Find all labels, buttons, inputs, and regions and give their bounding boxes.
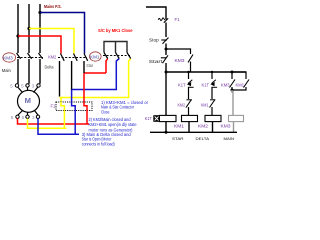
node start-top — [165, 48, 168, 51]
node L2 tap — [27, 27, 30, 30]
svg-text:KM1: KM1 — [90, 55, 100, 60]
terminal W2 — [36, 115, 39, 118]
svg-text:MAIN: MAIN — [224, 136, 235, 141]
coil KM3 — [229, 115, 244, 121]
star point bus — [104, 42, 127, 53]
branch K1T coil — [165, 72, 167, 115]
push button Start — [161, 57, 167, 59]
KM3 main contact pole3 — [39, 53, 43, 59]
svg-text:F1: F1 — [51, 104, 57, 109]
svg-text:STAR: STAR — [172, 136, 184, 141]
svg-text:connects in full load): connects in full load) — [82, 142, 116, 147]
wire motor to U2 — [18, 111, 23, 116]
svg-text:K1T: K1T — [202, 82, 210, 87]
coil KM2 — [205, 115, 221, 121]
control rail bottom — [150, 131, 237, 133]
supply line L3 — [39, 4, 41, 53]
overload contact F1 — [164, 18, 168, 23]
wire blue W2 bottom bus — [38, 119, 79, 135]
KM1 star contact pole2 — [116, 53, 120, 59]
KM1 star contact pole3 — [127, 53, 131, 59]
supply line L2 — [28, 4, 30, 53]
svg-text:Mains P.S.: Mains P.S. — [44, 4, 62, 10]
svg-text:KM1: KM1 — [201, 102, 209, 107]
wire red star pole1 jog — [106, 59, 108, 74]
push button Stop — [161, 39, 167, 41]
wire yellow V2 bottom bus — [28, 119, 67, 129]
contactor KM1 (Star) ellipse — [90, 52, 102, 61]
wire yellow feed heater1 — [60, 98, 62, 103]
svg-text:KM3: KM3 — [221, 82, 230, 87]
KM2 delta contact pole1 — [61, 54, 65, 61]
svg-text:Stop: Stop — [149, 37, 159, 42]
wire F1 to Stop — [165, 23, 167, 38]
svg-text:KM2: KM2 — [198, 124, 209, 129]
svg-text:M: M — [25, 96, 31, 105]
terminal V1 — [26, 84, 29, 87]
svg-text:KM1: KM1 — [174, 124, 185, 129]
svg-text:K1T: K1T — [178, 82, 186, 87]
svg-text:Start: Start — [149, 59, 164, 64]
wire yellow star pole3 jog — [60, 59, 131, 98]
wire K1T coil to rail — [165, 122, 167, 133]
heater blue — [72, 102, 76, 111]
svg-text:Close: Close — [101, 109, 110, 114]
wire red tap L1 to delta — [18, 36, 61, 54]
wire branch KM3 hold — [166, 49, 191, 54]
wire motor to W2 — [35, 111, 39, 116]
KM2 delta contact pole3 — [84, 54, 88, 61]
svg-text:Delta: Delta — [45, 64, 54, 69]
svg-text:KM3: KM3 — [221, 124, 232, 129]
wire W1 into motor — [34, 87, 38, 93]
KM3 main contact pole2 — [28, 53, 32, 59]
terminal U2 — [16, 115, 19, 118]
KM3 main contact pole1 — [17, 53, 21, 59]
motor M — [18, 90, 40, 112]
svg-text:K1T: K1T — [145, 116, 152, 121]
KM2 linkage dashes — [58, 57, 87, 59]
wire red link to delta pole3 — [84, 72, 106, 74]
wire pole3 to motor — [39, 59, 41, 84]
supply line L1 — [17, 4, 19, 53]
svg-text:Main: Main — [2, 68, 11, 73]
svg-text:DELTA: DELTA — [196, 136, 210, 141]
wire pole1 to motor — [17, 59, 19, 84]
terminal V2 — [26, 115, 29, 118]
wire motor to V2 — [27, 112, 29, 115]
wire Stop to node — [165, 44, 167, 56]
wire delta pole1 down — [59, 61, 61, 97]
overload F1 dashed box — [56, 102, 92, 111]
wire blue tap L3 to delta — [40, 13, 85, 54]
wire Start to rail — [165, 63, 167, 72]
KM3 linkage dashes — [17, 57, 43, 59]
svg-text:KM3: KM3 — [175, 58, 186, 63]
svg-text:KM1: KM1 — [236, 82, 245, 87]
wire red U2 bottom bus — [18, 119, 90, 125]
wire delta pole2 down — [71, 61, 73, 90]
KM1 star contact pole1 — [104, 53, 108, 59]
wire red heater3 out — [86, 111, 88, 125]
KM1 linkage dashes — [103, 55, 130, 57]
svg-text:KM3: KM3 — [3, 56, 13, 61]
wire yellow heater1 out — [64, 111, 66, 129]
wire delta pole3 down — [83, 61, 85, 73]
overload contact F1 squiggle — [158, 18, 164, 21]
svg-text:KM2: KM2 — [178, 102, 186, 107]
control rail top — [166, 71, 246, 73]
contactor KM3 (Main) ellipse — [3, 53, 16, 62]
wire U1 into motor — [18, 87, 23, 93]
node L3 tap — [38, 11, 41, 14]
terminal U1 — [15, 84, 18, 87]
wire red delta pole3 to heater3 — [83, 73, 85, 103]
heater red — [84, 102, 87, 111]
svg-text:Star: Star — [86, 63, 93, 68]
svg-text:S/C by MK1 Close: S/C by MK1 Close — [98, 28, 133, 33]
wire V1 into motor — [27, 87, 29, 90]
control supply wire — [146, 7, 166, 20]
node L1 tap — [16, 34, 19, 37]
svg-text:F1: F1 — [175, 17, 181, 22]
wire pole2 to motor — [28, 59, 30, 84]
terminal W1 — [37, 84, 40, 87]
svg-text:KM2: KM2 — [48, 55, 56, 60]
wire gray to KM3 coil — [232, 90, 233, 115]
KM2 delta contact pole2 — [74, 54, 78, 61]
wire blue star pole2 riser — [72, 59, 120, 103]
coil KM1 — [182, 115, 198, 121]
wire blue heater2 out — [75, 111, 79, 135]
heater yellow — [61, 102, 64, 111]
wire yellow tap L2 to delta — [29, 29, 74, 54]
